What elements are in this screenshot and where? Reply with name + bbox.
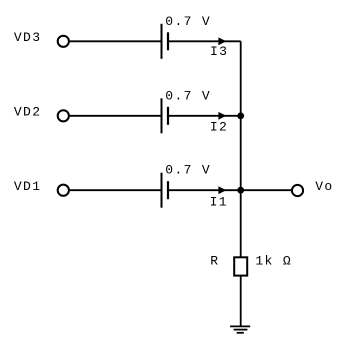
svg-text:VD3: VD3: [14, 30, 41, 45]
svg-text:Vo: Vo: [315, 179, 333, 194]
svg-text:0.7 V: 0.7 V: [165, 88, 211, 103]
svg-text:1k Ω: 1k Ω: [255, 254, 292, 269]
svg-text:0.7 V: 0.7 V: [165, 14, 211, 29]
svg-text:VD1: VD1: [14, 179, 41, 194]
svg-text:VD2: VD2: [14, 104, 41, 119]
svg-text:R: R: [210, 254, 219, 269]
svg-text:I3: I3: [210, 44, 228, 59]
svg-text:0.7 V: 0.7 V: [165, 163, 211, 178]
svg-text:I1: I1: [210, 194, 228, 209]
svg-text:I2: I2: [210, 120, 228, 135]
